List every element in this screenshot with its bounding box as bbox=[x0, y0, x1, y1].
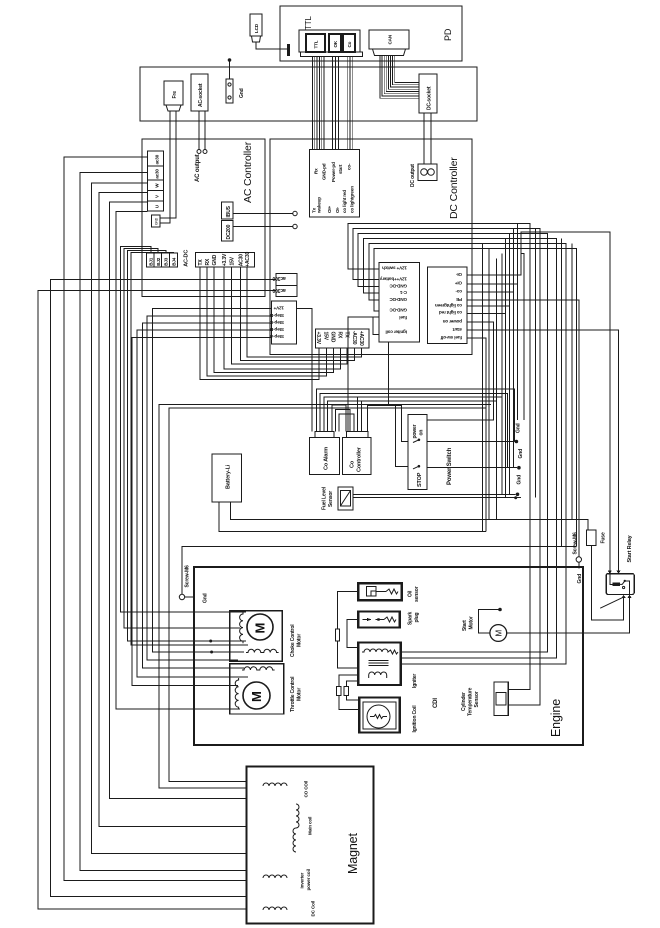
wire W to main coil bottom bbox=[92, 183, 297, 854]
wire co loop 2 bbox=[335, 410, 350, 432]
connector BJ4 bbox=[170, 253, 178, 267]
fuel sw-off connector bbox=[428, 267, 467, 344]
wire LCD to PD bbox=[256, 42, 288, 49]
DC coil bbox=[263, 907, 287, 910]
wire channel drop 1 bbox=[482, 243, 484, 531]
wire igniter to switch feed bbox=[388, 342, 390, 406]
svg-text:-AC30: -AC30 bbox=[351, 331, 357, 345]
svg-text:Power Switch: Power Switch bbox=[447, 447, 453, 485]
svg-text:Gnd: Gnd bbox=[516, 423, 522, 433]
svg-text:Step-B: Step-B bbox=[269, 327, 284, 332]
svg-text:C-1: C-1 bbox=[399, 290, 407, 295]
wire fuel sensor line 2 bbox=[353, 497, 521, 499]
svg-text:OI-: OI- bbox=[335, 206, 340, 213]
svg-text:ac30: ac30 bbox=[155, 169, 160, 179]
svg-text:Main coil: Main coil bbox=[308, 817, 313, 835]
wire co alarm C1 bbox=[316, 389, 514, 442]
spark plug bbox=[358, 612, 400, 628]
AC pin header bbox=[196, 253, 255, 268]
svg-text:GND-pd: GND-pd bbox=[322, 163, 327, 180]
svg-text:Controller: Controller bbox=[357, 446, 363, 472]
DC pin header bbox=[316, 329, 370, 348]
svg-text:Magnet: Magnet bbox=[346, 833, 360, 874]
AC output terminals bbox=[197, 150, 201, 154]
svg-text:plug: plug bbox=[414, 612, 420, 622]
wire ac300-1 to DC coil bbox=[51, 280, 291, 911]
wire C-1 route A4 bbox=[364, 238, 557, 658]
svg-text:Step-A: Step-A bbox=[269, 334, 284, 339]
switch contact lower bbox=[413, 466, 419, 469]
wire BJ2 to choke bbox=[124, 249, 240, 629]
wire screw gnd run bbox=[182, 547, 577, 595]
wire GND-DC route A3 bbox=[358, 233, 547, 652]
node Gnd 2 bbox=[517, 466, 521, 470]
wire igniter12V+ route A1 bbox=[348, 223, 530, 689]
svg-text:15V: 15V bbox=[230, 256, 236, 265]
svg-text:DC Controller: DC Controller bbox=[448, 157, 460, 219]
Engine box bbox=[194, 567, 583, 745]
wire Step-C to throttle bbox=[142, 323, 271, 668]
svg-text:on: on bbox=[419, 430, 425, 436]
svg-text:Power-pd: Power-pd bbox=[331, 162, 336, 182]
svg-text:15V: 15V bbox=[323, 332, 329, 341]
svg-text:RX: RX bbox=[205, 258, 211, 265]
wire stop feed bbox=[396, 406, 408, 467]
Co plug bbox=[343, 34, 355, 52]
wire CO coil run 1 bbox=[169, 408, 486, 786]
svg-text:GND: GND bbox=[330, 332, 336, 343]
svg-text:STOP: STOP bbox=[417, 472, 423, 487]
svg-text:LCD: LCD bbox=[254, 23, 259, 33]
relay lever bbox=[600, 597, 623, 608]
wire co loop 3 bbox=[339, 414, 354, 432]
svg-text:PD: PD bbox=[443, 28, 453, 41]
svg-text:OK: OK bbox=[333, 40, 338, 47]
wire battery route A2 bbox=[353, 228, 540, 705]
svg-text:DC200: DC200 bbox=[226, 224, 232, 239]
svg-text:TX: TX bbox=[198, 259, 204, 266]
wire riser extension lightred bbox=[505, 313, 507, 497]
svg-text:start: start bbox=[338, 164, 343, 174]
DC200 port bbox=[222, 221, 234, 241]
svg-text:BJ2: BJ2 bbox=[156, 257, 161, 266]
OK plug bbox=[329, 34, 341, 52]
svg-text:wakeup: wakeup bbox=[317, 197, 322, 214]
wire co ctrl riser 1 bbox=[357, 397, 359, 431]
Fre sensor bbox=[164, 81, 183, 105]
wire riser extension lightgreen bbox=[509, 306, 511, 494]
svg-text:GND: GND bbox=[155, 217, 159, 225]
oil sensor bbox=[358, 583, 401, 600]
wire Step-A to throttle bbox=[132, 337, 272, 685]
wire OI+ B2 bbox=[467, 223, 518, 283]
wire channel drop 5 bbox=[501, 253, 503, 397]
wire long drop A4a bbox=[561, 238, 563, 546]
svg-text:co-: co- bbox=[455, 289, 462, 294]
wire DC200 to terminal bbox=[233, 226, 293, 228]
svg-text:co light red: co light red bbox=[439, 310, 462, 315]
svg-text:power on: power on bbox=[442, 319, 462, 324]
Magnet box bbox=[246, 767, 373, 924]
CO coil bbox=[263, 783, 287, 786]
wire ac300-2 to DC coil bbox=[38, 291, 276, 911]
svg-text:Motor: Motor bbox=[297, 634, 303, 647]
DC-socket bbox=[419, 74, 437, 113]
wire gnd cell to throttle bbox=[116, 212, 240, 710]
fuse bbox=[587, 530, 597, 546]
svg-text:Co: Co bbox=[350, 460, 356, 468]
TTL plug bbox=[306, 34, 325, 52]
svg-text:Fuse: Fuse bbox=[601, 532, 607, 543]
wire long drop A2a bbox=[535, 228, 537, 497]
wire IBUS to terminal bbox=[233, 213, 293, 215]
IBUS port bbox=[222, 202, 234, 219]
wire co alarm left bbox=[297, 309, 312, 432]
svg-text:OI+: OI+ bbox=[454, 281, 462, 286]
AC-socket bbox=[191, 74, 208, 111]
svg-text:Gnd: Gnd bbox=[239, 88, 245, 98]
wire ac30-2 to inverter coil bbox=[80, 173, 287, 879]
svg-text:CDI: CDI bbox=[433, 698, 439, 708]
svg-text:BJ1: BJ1 bbox=[148, 257, 153, 266]
wire co ctrl riser 2 bbox=[361, 401, 363, 432]
svg-text:Spark: Spark bbox=[408, 611, 414, 625]
wire co loop 1 bbox=[332, 405, 346, 432]
wire co light red B6 bbox=[467, 238, 506, 313]
wire riser extension OI+ bbox=[517, 284, 519, 420]
svg-text:Gnd: Gnd bbox=[518, 449, 524, 459]
resistor R2 bbox=[337, 687, 341, 696]
svg-text:power: power bbox=[412, 424, 418, 438]
Co Controller bbox=[346, 432, 368, 438]
PD interface connector bbox=[310, 149, 360, 217]
wire gnd2 bbox=[427, 467, 517, 469]
wire long drop A5a bbox=[571, 243, 573, 519]
svg-text:Choke Control: Choke Control bbox=[290, 624, 296, 657]
wire igniter to coil 1 bbox=[339, 675, 359, 710]
svg-text:Sensor: Sensor bbox=[328, 491, 334, 507]
wire tie 486 bbox=[485, 408, 487, 531]
svg-text:+AC30: +AC30 bbox=[245, 251, 251, 266]
svg-text:sensor: sensor bbox=[414, 586, 420, 602]
terminal strip U V W ac30 ac30 bbox=[148, 151, 164, 211]
wire AC header TX link bbox=[200, 267, 319, 380]
wire DC-socket to DC output bbox=[424, 113, 431, 164]
svg-text:12V+ switch: 12V+ switch bbox=[382, 266, 407, 271]
wire CAN to DC-socket bbox=[380, 54, 419, 98]
svg-text:fuel sw-off: fuel sw-off bbox=[440, 335, 462, 340]
wire RX link bbox=[207, 267, 327, 376]
svg-text:12V+: 12V+ bbox=[273, 306, 284, 311]
svg-text:power coil: power coil bbox=[306, 869, 311, 890]
wire 15V link bbox=[232, 267, 348, 364]
Battery-Li bbox=[212, 454, 242, 502]
wire gnd1 bbox=[427, 441, 515, 443]
wire step 12V+ to choke bbox=[153, 309, 272, 652]
svg-text:Screw-M6: Screw-M6 bbox=[185, 565, 191, 588]
svg-text:IBUS: IBUS bbox=[226, 205, 232, 217]
wire AC-socket to AC output bbox=[199, 111, 205, 150]
svg-text:Igniter: Igniter bbox=[412, 674, 418, 688]
svg-text:ac300: ac300 bbox=[272, 275, 286, 281]
svg-text:co lightgreen: co lightgreen bbox=[435, 303, 462, 308]
svg-text:Ignition Coil: Ignition Coil bbox=[412, 705, 418, 733]
choke control motor bbox=[230, 611, 282, 662]
main coil bbox=[293, 804, 299, 852]
wire oil sensor loop bbox=[338, 592, 359, 668]
svg-text:M: M bbox=[249, 691, 264, 702]
svg-text:Motor: Motor bbox=[297, 688, 303, 701]
igniter coil connector bbox=[379, 262, 420, 341]
screw-M6 left bbox=[179, 594, 184, 599]
svg-text:Engine: Engine bbox=[549, 699, 563, 737]
svg-text:co lightgreen: co lightgreen bbox=[349, 186, 354, 213]
wire start to relay B8 bbox=[467, 330, 619, 570]
AC Controller box bbox=[142, 139, 265, 297]
svg-text:Battery-Li: Battery-Li bbox=[226, 464, 232, 489]
svg-text:Motor: Motor bbox=[469, 616, 475, 629]
svg-text:+3.3V: +3.3V bbox=[315, 332, 321, 345]
wire Step-B to throttle bbox=[137, 330, 272, 677]
connector ac300 lower bbox=[276, 286, 297, 297]
wire U to main coil top bbox=[110, 202, 297, 804]
wire co lightgreen B5 bbox=[467, 233, 510, 306]
svg-text:GND: GND bbox=[212, 254, 218, 265]
svg-text:co light red: co light red bbox=[342, 190, 347, 213]
svg-text:Throttle Control: Throttle Control bbox=[290, 676, 296, 712]
node Gnd 1 bbox=[515, 440, 519, 444]
wire V to main coil tap bbox=[99, 193, 296, 827]
wire start motor to relay bbox=[507, 598, 630, 633]
connector AC-DC BJ1 bbox=[146, 253, 154, 267]
svg-text:AC30: AC30 bbox=[239, 254, 245, 267]
wire GND-DC route A6 bbox=[374, 248, 577, 546]
svg-text:+3.3V: +3.3V bbox=[222, 253, 228, 266]
resistor R1 bbox=[335, 629, 339, 641]
wire BJ1 to choke bbox=[121, 247, 246, 613]
wire +AC30 link bbox=[247, 267, 362, 357]
igniter bbox=[358, 643, 401, 686]
ignition coil bbox=[359, 697, 400, 732]
svg-text:ac30: ac30 bbox=[155, 154, 160, 164]
wire igniter to coil 2 bbox=[346, 681, 359, 700]
wire spark loop bbox=[347, 620, 358, 648]
svg-text:TTL: TTL bbox=[304, 16, 313, 30]
svg-text:Oil: Oil bbox=[408, 590, 414, 597]
svg-text:Start Relay: Start Relay bbox=[627, 534, 633, 562]
svg-text:ac300: ac300 bbox=[272, 287, 286, 293]
inverter power coil bbox=[263, 875, 287, 878]
wire CO coil run 2 bbox=[159, 405, 491, 789]
svg-text:AC-socket: AC-socket bbox=[198, 83, 204, 107]
gnd cell bbox=[152, 215, 160, 227]
svg-text:RX: RX bbox=[337, 332, 343, 339]
wire co alarm C3 bbox=[324, 397, 502, 494]
svg-text:M: M bbox=[253, 623, 268, 634]
power switch box bbox=[408, 415, 427, 490]
svg-text:Sensor: Sensor bbox=[474, 691, 480, 707]
svg-text:DC output: DC output bbox=[410, 164, 416, 187]
wire channel drop 3 bbox=[521, 253, 524, 420]
wire co- B3 bbox=[467, 228, 514, 292]
wire GND-DC route A5 bbox=[369, 243, 566, 664]
wire channel drop 4 bbox=[495, 258, 497, 401]
svg-text:AC Controller: AC Controller bbox=[242, 141, 254, 203]
svg-text:Co: Co bbox=[347, 41, 352, 47]
wire BJ3 to choke bbox=[128, 251, 246, 642]
svg-text:Gnd: Gnd bbox=[203, 593, 209, 603]
wire gnd stud bbox=[229, 60, 231, 79]
DC output socket bbox=[418, 164, 437, 181]
connector ac300 upper bbox=[276, 274, 297, 286]
wire fuel to sensor A7 bbox=[348, 317, 379, 431]
wire Fre to AC-DC gnd bbox=[160, 111, 170, 223]
screw-M6 right bbox=[576, 557, 581, 562]
wire AC30 link bbox=[241, 267, 355, 361]
svg-text:Co Alarm: Co Alarm bbox=[324, 447, 330, 470]
wire OK pins down bbox=[333, 57, 339, 150]
svg-text:GND-DC: GND-DC bbox=[389, 297, 407, 302]
node Gnd 3 bbox=[516, 493, 520, 497]
svg-text:Screw-M6: Screw-M6 bbox=[573, 532, 579, 555]
svg-text:Start: Start bbox=[462, 620, 468, 631]
LCD module bbox=[250, 14, 262, 36]
wire co ctrl to power switch bbox=[367, 406, 408, 442]
svg-text:Fre: Fre bbox=[172, 91, 178, 99]
svg-text:DC Coil: DC Coil bbox=[311, 901, 316, 917]
svg-text:Step-C: Step-C bbox=[269, 320, 284, 325]
wire riser extension co- bbox=[513, 292, 515, 468]
svg-text:PE: PE bbox=[456, 297, 462, 302]
resistor R3 bbox=[344, 687, 348, 696]
node choke junction 1 bbox=[209, 640, 212, 643]
node gnd stud bbox=[228, 58, 232, 62]
svg-text:BJ3: BJ3 bbox=[164, 257, 169, 266]
connector BJ3 bbox=[162, 253, 170, 267]
svg-text:Step-D: Step-D bbox=[269, 313, 284, 318]
wire power on B7 bbox=[427, 322, 494, 420]
wire OI- to relay B1 bbox=[467, 232, 610, 571]
wire co alarm C4 bbox=[328, 401, 497, 520]
wire TTL pins down bbox=[313, 57, 325, 150]
svg-text:AC-DC: AC-DC bbox=[184, 250, 190, 267]
PD box bbox=[280, 6, 462, 61]
DC Controller box bbox=[270, 139, 472, 354]
svg-text:TTL: TTL bbox=[314, 40, 319, 48]
svg-text:co-: co- bbox=[346, 163, 351, 170]
svg-text:Cylinder: Cylinder bbox=[461, 692, 467, 711]
svg-text:AC output: AC output bbox=[195, 154, 201, 182]
wire gnd3 fuel sensor bbox=[353, 493, 515, 495]
wire PE to screw B4 bbox=[467, 300, 579, 557]
connector bar on PD bbox=[287, 44, 290, 56]
svg-text:GND-DC: GND-DC bbox=[389, 283, 407, 288]
svg-text:Fuel Level: Fuel Level bbox=[322, 486, 328, 510]
wire Step-D to choke bbox=[147, 316, 271, 660]
wire battery left bbox=[219, 502, 486, 532]
wire fuse to relay bbox=[592, 546, 624, 620]
cylinder temperature sensor bbox=[494, 682, 508, 715]
svg-text:CAN: CAN bbox=[388, 34, 393, 44]
fuel level sensor bbox=[338, 487, 353, 510]
wire +3.3V link bbox=[224, 267, 340, 369]
svg-text:12V++battery: 12V++battery bbox=[379, 276, 407, 281]
wire channel drop 2 bbox=[488, 248, 490, 519]
svg-text:BJ4: BJ4 bbox=[172, 257, 177, 266]
Co Alarm bbox=[315, 432, 334, 438]
svg-text:Rx: Rx bbox=[314, 168, 319, 174]
connector BJ2 bbox=[154, 253, 162, 267]
svg-text:DC-socket: DC-socket bbox=[427, 86, 433, 110]
start relay bbox=[606, 574, 634, 595]
svg-text:Temperature: Temperature bbox=[468, 687, 474, 716]
wire battery right to fuse bbox=[231, 502, 588, 530]
wire ac30-1 to inverter coil bbox=[64, 157, 263, 880]
wire GND link bbox=[214, 267, 333, 373]
svg-text:OI+: OI+ bbox=[327, 205, 332, 213]
svg-text:Inverter: Inverter bbox=[300, 872, 305, 888]
gnd terminal block bbox=[226, 79, 233, 103]
svg-text:fuel: fuel bbox=[399, 315, 407, 320]
stepper connector bbox=[272, 301, 297, 344]
svg-text:+AC30: +AC30 bbox=[358, 331, 364, 346]
svg-text:Gnd: Gnd bbox=[517, 475, 523, 485]
svg-text:OI-: OI- bbox=[455, 272, 462, 277]
svg-text:GND-DC: GND-DC bbox=[389, 308, 407, 313]
wire co alarm C2 bbox=[320, 393, 507, 467]
wire fuel sw-off B9 bbox=[467, 338, 486, 408]
wire BJ4 to choke bbox=[131, 253, 248, 646]
svg-text:start: start bbox=[452, 327, 462, 332]
svg-text:M: M bbox=[495, 630, 504, 637]
svg-text:CO COil: CO COil bbox=[304, 781, 309, 798]
throttle control motor bbox=[230, 664, 284, 714]
switch contact upper bbox=[413, 440, 419, 443]
TTL connector group bbox=[299, 30, 360, 52]
start motor bbox=[490, 625, 507, 642]
node choke junction 2 bbox=[210, 651, 213, 654]
wire Co pins down bbox=[347, 57, 353, 150]
band enclosure bbox=[140, 67, 477, 121]
svg-text:Igniter coil: Igniter coil bbox=[386, 330, 407, 335]
CAN connector bbox=[369, 30, 409, 49]
